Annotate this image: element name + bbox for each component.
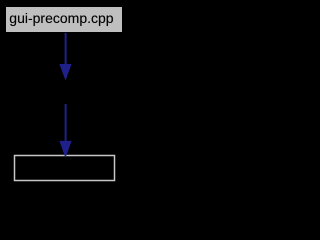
label gui-precomp.cpp: [9, 11, 113, 25]
wire edge2 shaft: [65, 104, 67, 142]
node empty-box: [15, 156, 115, 181]
node gui-precomp.cpp: [6, 7, 122, 32]
edge1 arrowhead: [59, 64, 71, 81]
edge2 arrowhead: [59, 141, 71, 158]
wire edge1 shaft: [65, 33, 67, 65]
